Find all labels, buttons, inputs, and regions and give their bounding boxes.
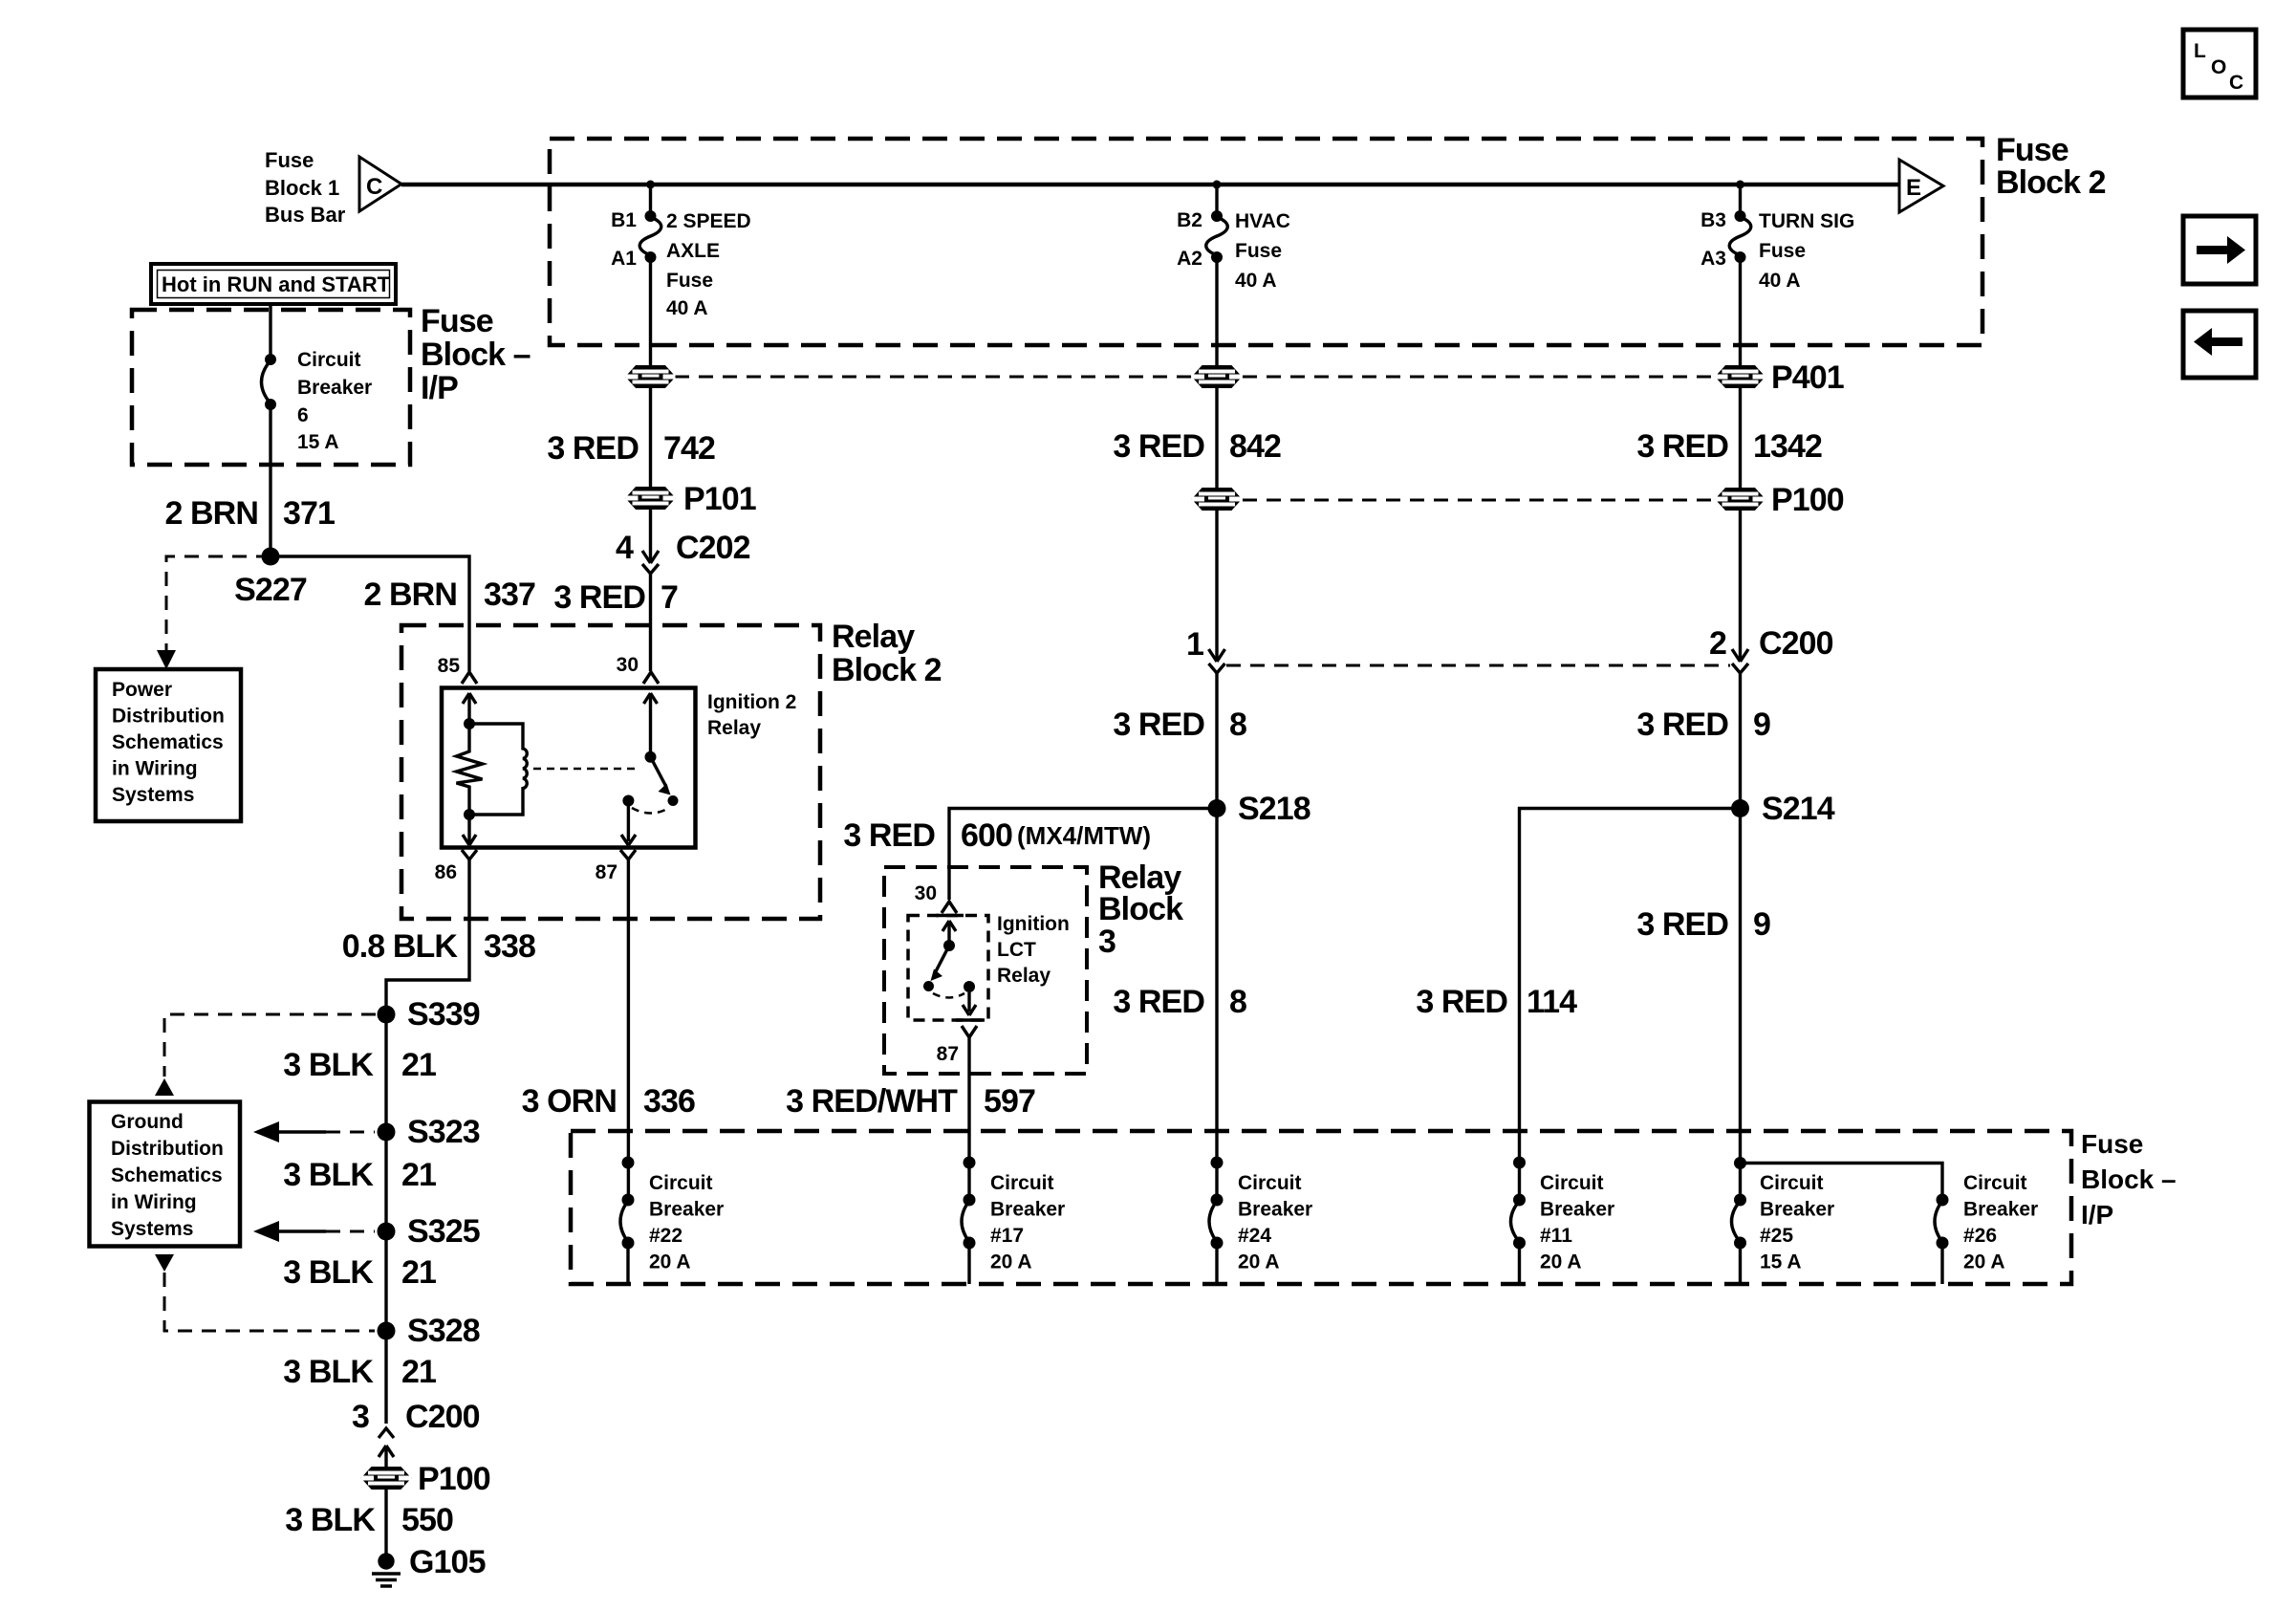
svg-text:4: 4	[616, 530, 634, 566]
svg-text:21: 21	[401, 1047, 436, 1083]
svg-text:Ground: Ground	[111, 1111, 184, 1133]
circuit breaker 17	[962, 1194, 976, 1285]
svg-text:Circuit: Circuit	[1540, 1172, 1604, 1194]
svg-text:Hot in RUN and START: Hot in RUN and START	[162, 272, 391, 296]
label Fuse Block 1 Bus Bar	[265, 148, 346, 227]
label 3 BLK 21 b	[283, 1157, 436, 1193]
svg-text:P100: P100	[418, 1461, 490, 1497]
node S323	[378, 1123, 396, 1142]
switch common arrow up to pin 30	[644, 693, 658, 751]
svg-text:40 A: 40 A	[1759, 270, 1801, 292]
svg-text:8: 8	[1229, 707, 1246, 743]
svg-text:Breaker: Breaker	[649, 1199, 724, 1221]
svg-text:338: 338	[484, 928, 535, 965]
svg-text:3 RED: 3 RED	[843, 817, 935, 854]
wire fuse A2 down	[1215, 260, 1218, 366]
dashed link P100 row	[1243, 499, 1715, 502]
label 2 SPEED AXLE Fuse 40 A	[666, 210, 751, 319]
label 3 RED 742	[547, 430, 715, 467]
connector triangle C	[359, 157, 401, 211]
dashed travel arc K1	[632, 808, 669, 814]
svg-text:3 BLK: 3 BLK	[283, 1254, 374, 1291]
wire 742	[649, 387, 652, 488]
svg-text:9: 9	[1753, 906, 1770, 943]
svg-text:B3: B3	[1700, 209, 1726, 231]
label Ignition LCT Relay	[997, 913, 1070, 987]
svg-text:1342: 1342	[1753, 428, 1822, 465]
label Circuit Breaker 25 15 A	[1760, 1172, 1834, 1273]
label Relay Block 3	[1098, 859, 1183, 960]
NO contact arrow down to pin 87	[621, 806, 636, 845]
svg-text:AXLE: AXLE	[666, 240, 720, 262]
svg-text:in Wiring: in Wiring	[112, 758, 198, 780]
svg-text:C200: C200	[405, 1399, 480, 1435]
Hot in RUN and START callout box	[151, 264, 396, 304]
svg-text:Breaker: Breaker	[1963, 1199, 2038, 1221]
label Circuit Breaker 22 20 A	[649, 1172, 724, 1273]
grommet col2 row2	[1192, 489, 1242, 510]
label Ignition 2 Relay	[707, 691, 796, 739]
svg-text:S218: S218	[1238, 791, 1310, 827]
Fuse Block 2 dashed outline	[550, 139, 1982, 345]
grommet P401	[1716, 366, 1765, 387]
junction breaker 17 entry	[964, 1157, 976, 1169]
node S218	[1208, 799, 1226, 817]
node S214	[1731, 799, 1749, 817]
connector C200 pin 3	[379, 1428, 394, 1468]
svg-text:#22: #22	[649, 1225, 682, 1247]
pin 87 terminal relay K2	[962, 1026, 977, 1037]
relay coil branch arrow up	[463, 693, 476, 724]
svg-text:C200: C200	[1759, 625, 1833, 662]
junction coil top	[464, 718, 475, 729]
svg-text:C: C	[2229, 72, 2243, 94]
svg-text:3 RED: 3 RED	[1113, 984, 1204, 1020]
svg-text:337: 337	[484, 577, 535, 613]
circuit breaker 25	[1732, 1194, 1747, 1285]
svg-text:20 A: 20 A	[990, 1251, 1032, 1273]
label Relay Block 2	[832, 619, 942, 688]
svg-text:3 ORN: 3 ORN	[522, 1083, 617, 1120]
svg-text:Systems: Systems	[112, 784, 194, 806]
svg-text:7: 7	[661, 579, 678, 616]
svg-text:Relay: Relay	[832, 619, 915, 655]
wire fuse A3 down	[1739, 260, 1742, 366]
label 3 RED 842	[1113, 428, 1281, 465]
svg-text:B2: B2	[1177, 209, 1202, 231]
svg-text:15 A: 15 A	[1760, 1251, 1802, 1273]
svg-text:HVAC: HVAC	[1235, 210, 1290, 232]
wire bus to fuse B1	[649, 185, 652, 212]
label 3 BLK 550	[285, 1502, 453, 1538]
junction breaker 11 entry	[1513, 1157, 1526, 1169]
fuse F3 TURN SIG 40A	[1729, 210, 1751, 263]
label Circuit Breaker 26 20 A	[1963, 1172, 2038, 1273]
switch common arrow up K2	[942, 921, 956, 941]
node S339	[378, 1006, 396, 1024]
label 3 RED 1342	[1636, 428, 1822, 465]
wire 7 to relay pin 30	[649, 574, 652, 671]
switch arm K2	[931, 946, 950, 981]
svg-text:3 RED: 3 RED	[547, 430, 639, 467]
svg-text:(MX4/MTW): (MX4/MTW)	[1017, 821, 1151, 850]
svg-text:Block –: Block –	[2081, 1164, 2177, 1194]
dashed reference S227 to power distribution	[157, 556, 271, 669]
svg-text:87: 87	[596, 861, 617, 883]
svg-text:Schematics: Schematics	[112, 731, 224, 753]
node S227	[262, 548, 280, 566]
grommet P101	[626, 488, 676, 509]
svg-text:9: 9	[1753, 707, 1770, 743]
connector triangle E	[1899, 160, 1943, 212]
Fuse Block I/P bottom dashed outline	[571, 1131, 2071, 1284]
svg-text:597: 597	[984, 1083, 1035, 1120]
wire P101 to C202	[649, 509, 652, 560]
svg-text:30: 30	[915, 882, 937, 904]
Relay Block 3 dashed outline	[884, 867, 1087, 1074]
dashed link P401 row	[675, 376, 1191, 379]
label TURN SIG Fuse 40 A	[1759, 210, 1854, 292]
grommet col1 row1	[626, 366, 676, 387]
svg-text:336: 336	[643, 1083, 695, 1120]
pin 30 terminal	[643, 672, 659, 684]
svg-text:Fuse: Fuse	[2081, 1129, 2143, 1159]
dashed link C200	[1226, 664, 1730, 667]
wire col3 to C200	[1739, 510, 1742, 659]
label 3 RED 8	[1113, 707, 1246, 743]
right-arrow legend box	[2183, 216, 2256, 284]
svg-text:L: L	[2194, 40, 2206, 62]
svg-text:Circuit: Circuit	[1760, 1172, 1824, 1194]
wire pin 87 down to circuit breaker 17	[967, 1037, 970, 1200]
svg-text:S227: S227	[234, 572, 307, 608]
svg-text:Block: Block	[1098, 891, 1183, 927]
svg-text:21: 21	[401, 1254, 436, 1291]
svg-text:0.8 BLK: 0.8 BLK	[342, 928, 459, 965]
LOC legend box	[2183, 30, 2256, 98]
switch arm end contact K1	[668, 795, 679, 806]
svg-text:Circuit: Circuit	[990, 1172, 1054, 1194]
svg-text:Fuse: Fuse	[421, 303, 493, 339]
relay K1 Ignition 2 Relay box	[442, 688, 696, 848]
svg-text:Breaker: Breaker	[990, 1199, 1065, 1221]
label 3 BLK 21 a	[283, 1047, 436, 1083]
junction on bus at fuse 3	[1736, 181, 1744, 189]
svg-text:Distribution: Distribution	[111, 1138, 224, 1160]
wire 1342	[1739, 387, 1742, 489]
circuit breaker 6	[262, 354, 277, 410]
svg-text:C202: C202	[676, 530, 750, 566]
svg-text:Relay: Relay	[707, 717, 761, 739]
svg-text:P401: P401	[1771, 359, 1844, 396]
svg-text:3 BLK: 3 BLK	[283, 1354, 374, 1390]
Power Distribution reference box	[96, 669, 241, 821]
svg-text:S323: S323	[407, 1114, 480, 1150]
coil of relay K1	[469, 724, 527, 815]
wire 8 upper	[1215, 673, 1218, 808]
svg-text:Fuse: Fuse	[1759, 240, 1806, 262]
junction breaker 24 entry	[1211, 1157, 1224, 1169]
wire 9 upper	[1739, 673, 1742, 808]
left-arrow legend box	[2183, 311, 2256, 378]
svg-text:30: 30	[617, 654, 639, 676]
svg-text:Circuit: Circuit	[649, 1172, 713, 1194]
svg-text:20 A: 20 A	[1963, 1251, 2005, 1273]
svg-text:Fuse: Fuse	[666, 270, 713, 292]
label 3 RED 8 lower	[1113, 984, 1246, 1020]
svg-text:TURN SIG: TURN SIG	[1759, 210, 1854, 232]
svg-text:Schematics: Schematics	[111, 1164, 223, 1186]
grommet P100	[1716, 489, 1765, 510]
svg-text:2: 2	[1709, 625, 1726, 662]
label 2 BRN 337	[363, 577, 535, 613]
svg-text:P101: P101	[683, 481, 756, 517]
label Circuit Breaker 6 15 A	[297, 349, 372, 453]
dashed arrow S323 to ground box	[253, 1121, 375, 1142]
svg-text:3 RED: 3 RED	[1636, 428, 1728, 465]
pin 86 terminal	[462, 850, 477, 859]
svg-text:3 BLK: 3 BLK	[285, 1502, 376, 1538]
switch arm K1	[651, 757, 671, 795]
dashed travel arc K2	[933, 993, 964, 998]
node S325	[378, 1223, 396, 1241]
wire breaker 6 to S227	[269, 408, 271, 553]
svg-text:Block 2: Block 2	[832, 652, 942, 688]
svg-text:3 RED: 3 RED	[1636, 707, 1728, 743]
svg-text:Circuit: Circuit	[1238, 1172, 1302, 1194]
svg-text:6: 6	[297, 404, 309, 426]
svg-text:2 SPEED: 2 SPEED	[666, 210, 751, 232]
junction breaker 22 entry	[622, 1157, 635, 1169]
wire hot box to breaker 6	[269, 304, 271, 356]
svg-text:Systems: Systems	[111, 1218, 193, 1240]
svg-text:#26: #26	[1963, 1225, 1997, 1247]
svg-text:3 RED/WHT: 3 RED/WHT	[786, 1083, 958, 1120]
svg-text:2 BRN: 2 BRN	[363, 577, 457, 613]
circuit breaker 24	[1209, 1194, 1224, 1285]
resistor in relay K1	[457, 724, 483, 815]
svg-text:S328: S328	[407, 1313, 480, 1349]
svg-text:B1: B1	[611, 209, 637, 231]
svg-text:20 A: 20 A	[649, 1251, 691, 1273]
wire pin 87 down to circuit breaker 22	[627, 859, 630, 1200]
svg-text:87: 87	[937, 1043, 959, 1065]
svg-text:15 A: 15 A	[297, 431, 339, 453]
circuit breaker 22	[620, 1194, 635, 1285]
pin 87 terminal	[620, 850, 636, 859]
svg-text:Block –: Block –	[421, 337, 531, 373]
svg-text:Breaker: Breaker	[1760, 1199, 1834, 1221]
svg-text:600: 600	[961, 817, 1012, 854]
svg-text:Ignition: Ignition	[997, 913, 1070, 935]
svg-text:S214: S214	[1762, 791, 1835, 827]
label 3 RED 600 (MX4/MTW)	[843, 817, 1151, 854]
switch pivot K1	[645, 751, 657, 763]
junction on bus at fuse 1	[646, 181, 655, 189]
svg-text:21: 21	[401, 1354, 436, 1390]
wire S218 branch to relay block 3	[949, 809, 1217, 901]
svg-text:Circuit: Circuit	[1963, 1172, 2027, 1194]
label HVAC Fuse 40 A	[1235, 210, 1290, 292]
switch NO contact K1	[622, 795, 634, 807]
svg-text:742: 742	[663, 430, 715, 467]
bus bar wire	[401, 183, 1899, 187]
relay K2 Ignition LCT Relay inner dashed box	[908, 916, 988, 1021]
svg-text:3 BLK: 3 BLK	[283, 1157, 374, 1193]
wire bus to fuse B2	[1215, 185, 1218, 212]
grommet col2 row1	[1192, 366, 1242, 387]
svg-text:Circuit: Circuit	[297, 349, 361, 371]
dashed reference S339 to ground box	[155, 1014, 376, 1096]
label Circuit Breaker 11 20 A	[1540, 1172, 1614, 1273]
svg-text:21: 21	[401, 1157, 436, 1193]
svg-text:Bus Bar: Bus Bar	[265, 203, 346, 227]
wire ground chain	[384, 1014, 387, 1424]
svg-text:S339: S339	[407, 996, 480, 1033]
svg-text:#17: #17	[990, 1225, 1024, 1247]
label Fuse Block - I/P bottom	[2081, 1129, 2177, 1229]
connector C202 pin 4	[642, 551, 659, 574]
label 0.8 BLK 338	[342, 928, 535, 965]
fuse F1 2 SPEED AXLE 40A	[639, 210, 661, 263]
wire P100 to ground	[384, 1489, 387, 1556]
svg-text:3: 3	[1098, 924, 1116, 960]
svg-text:Relay: Relay	[997, 965, 1051, 987]
relay coil branch arrow down	[463, 815, 476, 845]
wire S214 down	[1739, 809, 1742, 1201]
svg-text:P100: P100	[1771, 482, 1844, 518]
svg-text:1: 1	[1186, 626, 1203, 663]
svg-text:E: E	[1906, 175, 1921, 201]
label 3 RED 7	[553, 579, 678, 616]
entry bar top K2	[936, 914, 964, 918]
dashed actuation link K1	[533, 768, 637, 771]
label 3 BLK 21 c	[283, 1254, 436, 1291]
label 3 RED 9 lower	[1636, 906, 1770, 943]
label 3 BLK 21 d	[283, 1354, 436, 1390]
svg-text:40 A: 40 A	[1235, 270, 1277, 292]
pin 30 terminal relay K2	[942, 902, 957, 913]
svg-text:S325: S325	[407, 1213, 480, 1250]
svg-text:20 A: 20 A	[1540, 1251, 1582, 1273]
svg-text:3 RED: 3 RED	[553, 579, 645, 616]
junction coil bottom	[464, 809, 475, 820]
svg-text:C: C	[366, 174, 382, 200]
svg-text:Block 1: Block 1	[265, 176, 339, 200]
svg-text:Ignition 2: Ignition 2	[707, 691, 796, 713]
wire S227 to relay pin 85	[271, 556, 469, 671]
svg-text:842: 842	[1229, 428, 1281, 465]
label 3 RED 9	[1636, 707, 1770, 743]
grommet P100 lower	[361, 1468, 411, 1489]
wire S214 branch	[1520, 809, 1741, 1201]
svg-text:O: O	[2211, 56, 2226, 78]
wire pin 86 down with jog	[386, 859, 469, 1014]
pin 85 terminal	[462, 672, 477, 684]
svg-text:2 BRN: 2 BRN	[164, 495, 258, 532]
label Circuit Breaker 24 20 A	[1238, 1172, 1312, 1273]
switch arm end contact K2	[923, 981, 934, 991]
svg-text:40 A: 40 A	[666, 297, 708, 319]
svg-text:#24: #24	[1238, 1225, 1271, 1247]
svg-text:in Wiring: in Wiring	[111, 1191, 197, 1213]
label Circuit Breaker 17 20 A	[990, 1172, 1065, 1273]
svg-text:114: 114	[1527, 984, 1577, 1020]
wire col2 to C200	[1215, 510, 1218, 659]
svg-text:Fuse: Fuse	[265, 148, 314, 172]
svg-text:A1: A1	[611, 248, 637, 270]
label Fuse Block 2	[1996, 132, 2106, 201]
svg-text:Fuse: Fuse	[1235, 240, 1282, 262]
circuit breaker 11	[1511, 1194, 1527, 1285]
svg-text:86: 86	[435, 861, 457, 883]
svg-text:I/P: I/P	[421, 370, 458, 406]
svg-text:#25: #25	[1760, 1225, 1793, 1247]
svg-text:85: 85	[438, 655, 461, 677]
junction breaker 25 entry	[1734, 1157, 1746, 1169]
wire fuse A1 down	[649, 260, 652, 366]
svg-text:3 RED: 3 RED	[1416, 984, 1507, 1020]
NO contact arrow down K2	[963, 992, 976, 1015]
svg-text:I/P: I/P	[2081, 1200, 2113, 1229]
exit bar bottom K2	[956, 1018, 985, 1022]
svg-text:8: 8	[1229, 984, 1246, 1020]
label 3 RED/WHT 597	[786, 1083, 1035, 1120]
connector C200 pin 1	[1209, 649, 1225, 673]
svg-text:A2: A2	[1177, 248, 1202, 270]
svg-text:Power: Power	[112, 679, 172, 701]
svg-text:Breaker: Breaker	[1238, 1199, 1312, 1221]
switch NO contact K2	[964, 981, 975, 992]
Relay Block 2 dashed outline	[401, 625, 820, 919]
ground G105	[372, 1553, 401, 1586]
svg-text:Breaker: Breaker	[297, 377, 372, 399]
svg-text:371: 371	[283, 495, 335, 532]
svg-text:550: 550	[401, 1502, 453, 1538]
wire jumper breaker 25 to breaker 26	[1741, 1164, 1943, 1198]
wire 842	[1215, 387, 1218, 489]
dashed reference ground box to S328	[155, 1254, 375, 1331]
svg-text:G105: G105	[409, 1544, 486, 1580]
svg-text:A3: A3	[1700, 248, 1726, 270]
Fuse Block I/P dashed outline (circuit breaker 6)	[132, 310, 410, 465]
svg-text:3 RED: 3 RED	[1636, 906, 1728, 943]
svg-text:20 A: 20 A	[1238, 1251, 1280, 1273]
circuit breaker 26	[1935, 1194, 1949, 1285]
label Fuse Block - I/P	[421, 303, 531, 406]
svg-text:3: 3	[352, 1399, 369, 1435]
svg-text:3 BLK: 3 BLK	[283, 1047, 374, 1083]
wire S218 down	[1215, 809, 1218, 1201]
svg-text:Block 2: Block 2	[1996, 164, 2106, 201]
svg-text:3 RED: 3 RED	[1113, 428, 1204, 465]
dashed arrow S325 to ground box	[253, 1221, 375, 1242]
label 3 ORN 336	[522, 1083, 695, 1120]
svg-text:#11: #11	[1540, 1225, 1572, 1247]
wire bus to fuse B3	[1739, 185, 1742, 212]
label 3 RED 114	[1416, 984, 1577, 1020]
svg-text:3 RED: 3 RED	[1113, 707, 1204, 743]
svg-text:Fuse: Fuse	[1996, 132, 2069, 168]
switch pivot K2	[943, 940, 955, 951]
fuse F2 HVAC 40A	[1206, 210, 1228, 263]
connector C200 pin 2	[1732, 649, 1748, 673]
svg-text:Breaker: Breaker	[1540, 1199, 1614, 1221]
junction on bus at fuse 2	[1213, 181, 1222, 189]
label 2 BRN 371	[164, 495, 335, 532]
node S328	[378, 1322, 396, 1340]
svg-text:Distribution: Distribution	[112, 706, 225, 728]
